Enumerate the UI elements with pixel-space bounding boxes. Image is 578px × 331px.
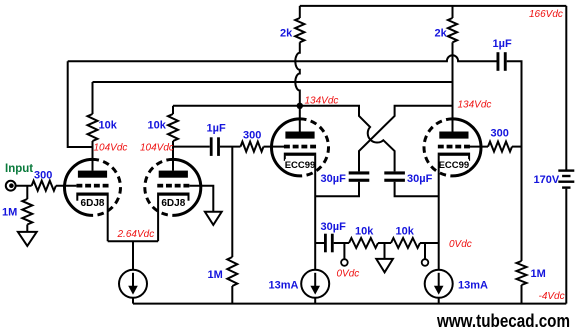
svg-text:www.tubecad.com: www.tubecad.com bbox=[436, 311, 570, 331]
triode V1 6DJ8 bbox=[65, 159, 93, 215]
svg-text:1µF: 1µF bbox=[493, 38, 512, 50]
wire grid leak to 1M R8 bbox=[231, 147, 233, 257]
resistor R4 2k bbox=[448, 18, 457, 42]
svg-text:ECC99: ECC99 bbox=[439, 160, 470, 171]
wire junction to R6 bbox=[26, 186, 28, 199]
svg-text:166Vdc: 166Vdc bbox=[529, 9, 563, 20]
svg-text:1M: 1M bbox=[2, 207, 17, 219]
resistor R9 10k bbox=[349, 238, 378, 248]
wire R5 to V1 grid bbox=[56, 185, 77, 187]
wire V3 cathode to C5 bbox=[315, 242, 324, 244]
svg-text:10k: 10k bbox=[148, 120, 167, 132]
wire R11 to grid leak bbox=[512, 146, 522, 148]
ground feedback bbox=[376, 259, 393, 272]
wire rail 10k R2 to node 134Vdc bbox=[173, 105, 300, 107]
wire V1 cathode down bbox=[107, 196, 109, 242]
svg-text:1M: 1M bbox=[531, 268, 546, 280]
wire V4 cathode down bbox=[438, 156, 440, 270]
input jack J1 bbox=[6, 181, 16, 191]
svg-text:13mA: 13mA bbox=[458, 280, 488, 292]
wire R12 to rail bbox=[521, 285, 523, 304]
svg-text:300: 300 bbox=[243, 130, 261, 142]
wire V3 plate to C4 (hop over cross) bbox=[300, 106, 395, 172]
current source I2 bbox=[301, 270, 329, 298]
capacitor C1 1uF bbox=[210, 137, 213, 156]
resistor R6 1M input bbox=[22, 199, 32, 225]
resistor R3 2k bbox=[295, 18, 304, 42]
wire rail from V1 plate to C2 (hops over R-2k2) bbox=[68, 55, 497, 61]
resistor R2 10k bbox=[168, 114, 178, 141]
ground V2 grid bbox=[205, 212, 222, 225]
wire I3 to rail bbox=[438, 298, 440, 304]
capacitor C5 30uF bbox=[324, 234, 327, 253]
wire cathode join bbox=[108, 240, 158, 242]
wire right B+ down to battery bbox=[565, 6, 567, 170]
resistor R12 1M bbox=[517, 261, 527, 285]
wire R6 to ground bbox=[26, 225, 28, 232]
wire center tap to ground bbox=[384, 243, 386, 259]
svg-text:30µF: 30µF bbox=[321, 221, 347, 233]
wire V3 cathode down bbox=[314, 156, 316, 270]
wire V2 cathode down bbox=[157, 196, 159, 242]
resistor R11 300 bbox=[488, 142, 512, 152]
current source I3 bbox=[425, 270, 453, 298]
svg-text:1µF: 1µF bbox=[207, 123, 226, 135]
svg-text:10k: 10k bbox=[355, 226, 374, 238]
resistor R5 300 bbox=[32, 181, 56, 191]
triode V2 6DJ8 bbox=[173, 159, 201, 215]
resistor R7 300 bbox=[241, 142, 264, 152]
svg-text:30µF: 30µF bbox=[407, 173, 433, 185]
ground input bbox=[18, 232, 37, 246]
wire C2 to V4 grid line bbox=[507, 61, 522, 261]
terminal TP1 bbox=[343, 243, 345, 259]
svg-text:104Vdc: 104Vdc bbox=[94, 143, 128, 154]
svg-text:1M: 1M bbox=[208, 269, 223, 281]
terminal TP2 bbox=[424, 243, 426, 259]
wire V4 plate to C3 bbox=[359, 106, 453, 172]
wire C3 to V3 cathode bbox=[315, 182, 359, 197]
wire 2k R3 to V3 plate (hops rails) bbox=[295, 42, 300, 131]
node 134Vdc junction dot bbox=[297, 103, 303, 109]
capacitor C2 1uF bbox=[497, 52, 500, 71]
triode V3 ECC99 bbox=[272, 119, 301, 176]
svg-text:-4Vdc: -4Vdc bbox=[539, 291, 565, 302]
svg-text:0Vdc: 0Vdc bbox=[449, 239, 472, 250]
wire I1 to rail bbox=[132, 298, 134, 304]
wire V2 plate node to C1 bbox=[173, 146, 210, 148]
svg-text:10k: 10k bbox=[396, 226, 415, 238]
resistor R10 10k bbox=[391, 238, 420, 248]
triode V4 ECC99 bbox=[453, 119, 482, 176]
wire bottom ground rail bbox=[133, 303, 566, 305]
wire R8 to rail bbox=[231, 286, 233, 304]
wire V4 grid to R11 bbox=[469, 146, 488, 148]
wire rail from R1 top to V3 plate node bbox=[93, 81, 453, 83]
svg-text:2k: 2k bbox=[435, 28, 448, 40]
svg-text:ECC99: ECC99 bbox=[285, 160, 316, 171]
wire loop down to V1 plate node bbox=[68, 61, 93, 147]
wire 10k R1 to V1 plate bbox=[92, 141, 94, 171]
capacitor C4 30uF bbox=[384, 171, 405, 174]
wire 2k R4 top stub bbox=[452, 6, 454, 18]
svg-text:30µF: 30µF bbox=[321, 173, 347, 185]
svg-text:104Vdc: 104Vdc bbox=[140, 143, 174, 154]
wire C5 to R9 bbox=[334, 242, 349, 244]
svg-text:2.64Vdc: 2.64Vdc bbox=[117, 229, 155, 240]
wire C4 to V4 cathode bbox=[395, 182, 439, 197]
wire top B+ rail bbox=[300, 5, 567, 7]
svg-text:2k: 2k bbox=[280, 28, 293, 40]
svg-text:300: 300 bbox=[34, 170, 52, 182]
battery B1 170V bbox=[558, 169, 574, 171]
wire 10k R2 corner to rail bbox=[172, 106, 174, 114]
svg-text:Input: Input bbox=[5, 163, 33, 175]
wire jack to R5 bbox=[16, 185, 32, 187]
wire R7 to V3 grid bbox=[264, 146, 285, 148]
wire 2k R4 to V4 plate bbox=[452, 42, 454, 131]
svg-text:13mA: 13mA bbox=[269, 280, 299, 292]
wire I2 to rail bbox=[314, 298, 316, 304]
wire V2 grid to ground bbox=[189, 186, 213, 212]
wire join to current source I1 bbox=[132, 241, 134, 270]
svg-text:300: 300 bbox=[491, 128, 509, 140]
current source I1 bbox=[119, 270, 147, 298]
resistor R1 10k bbox=[88, 114, 98, 141]
svg-text:170V: 170V bbox=[534, 174, 560, 186]
svg-text:6DJ8: 6DJ8 bbox=[81, 198, 105, 209]
svg-text:134Vdc: 134Vdc bbox=[458, 100, 492, 111]
wire R10 to V4 cathode bbox=[420, 242, 439, 244]
wire 10k R1 top stub bbox=[92, 82, 94, 114]
svg-text:0Vdc: 0Vdc bbox=[337, 269, 360, 280]
wire battery to bottom rail bbox=[565, 189, 567, 304]
svg-text:6DJ8: 6DJ8 bbox=[161, 198, 185, 209]
capacitor C3 30uF bbox=[349, 171, 370, 174]
wire 10k R2 to V2 plate bbox=[172, 141, 174, 171]
wire 2k R3 top stub bbox=[299, 6, 301, 18]
wire R9 to R10 bbox=[378, 242, 391, 244]
wire C1 to R7 bbox=[220, 146, 241, 148]
svg-text:10k: 10k bbox=[99, 120, 118, 132]
resistor R8 1M bbox=[227, 257, 237, 286]
